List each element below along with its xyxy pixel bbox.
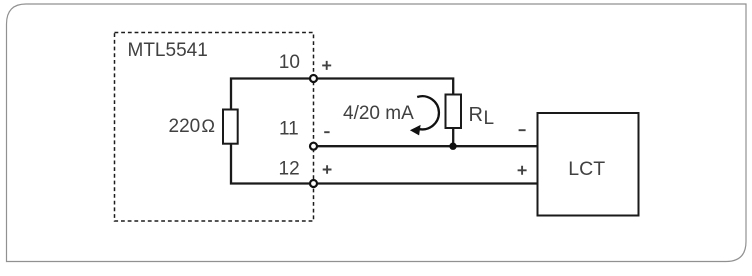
svg-text:L: L [484, 108, 495, 129]
svg-text:10: 10 [279, 52, 300, 73]
svg-text:MTL5541: MTL5541 [128, 40, 208, 61]
svg-text:11: 11 [279, 119, 299, 140]
svg-text:12: 12 [279, 158, 300, 179]
svg-text:LCT: LCT [568, 158, 605, 180]
svg-text:220: 220 [169, 116, 201, 137]
svg-text:Ω: Ω [201, 116, 215, 136]
svg-text:R: R [469, 104, 483, 126]
svg-text:4/20 mA: 4/20 mA [343, 103, 414, 124]
